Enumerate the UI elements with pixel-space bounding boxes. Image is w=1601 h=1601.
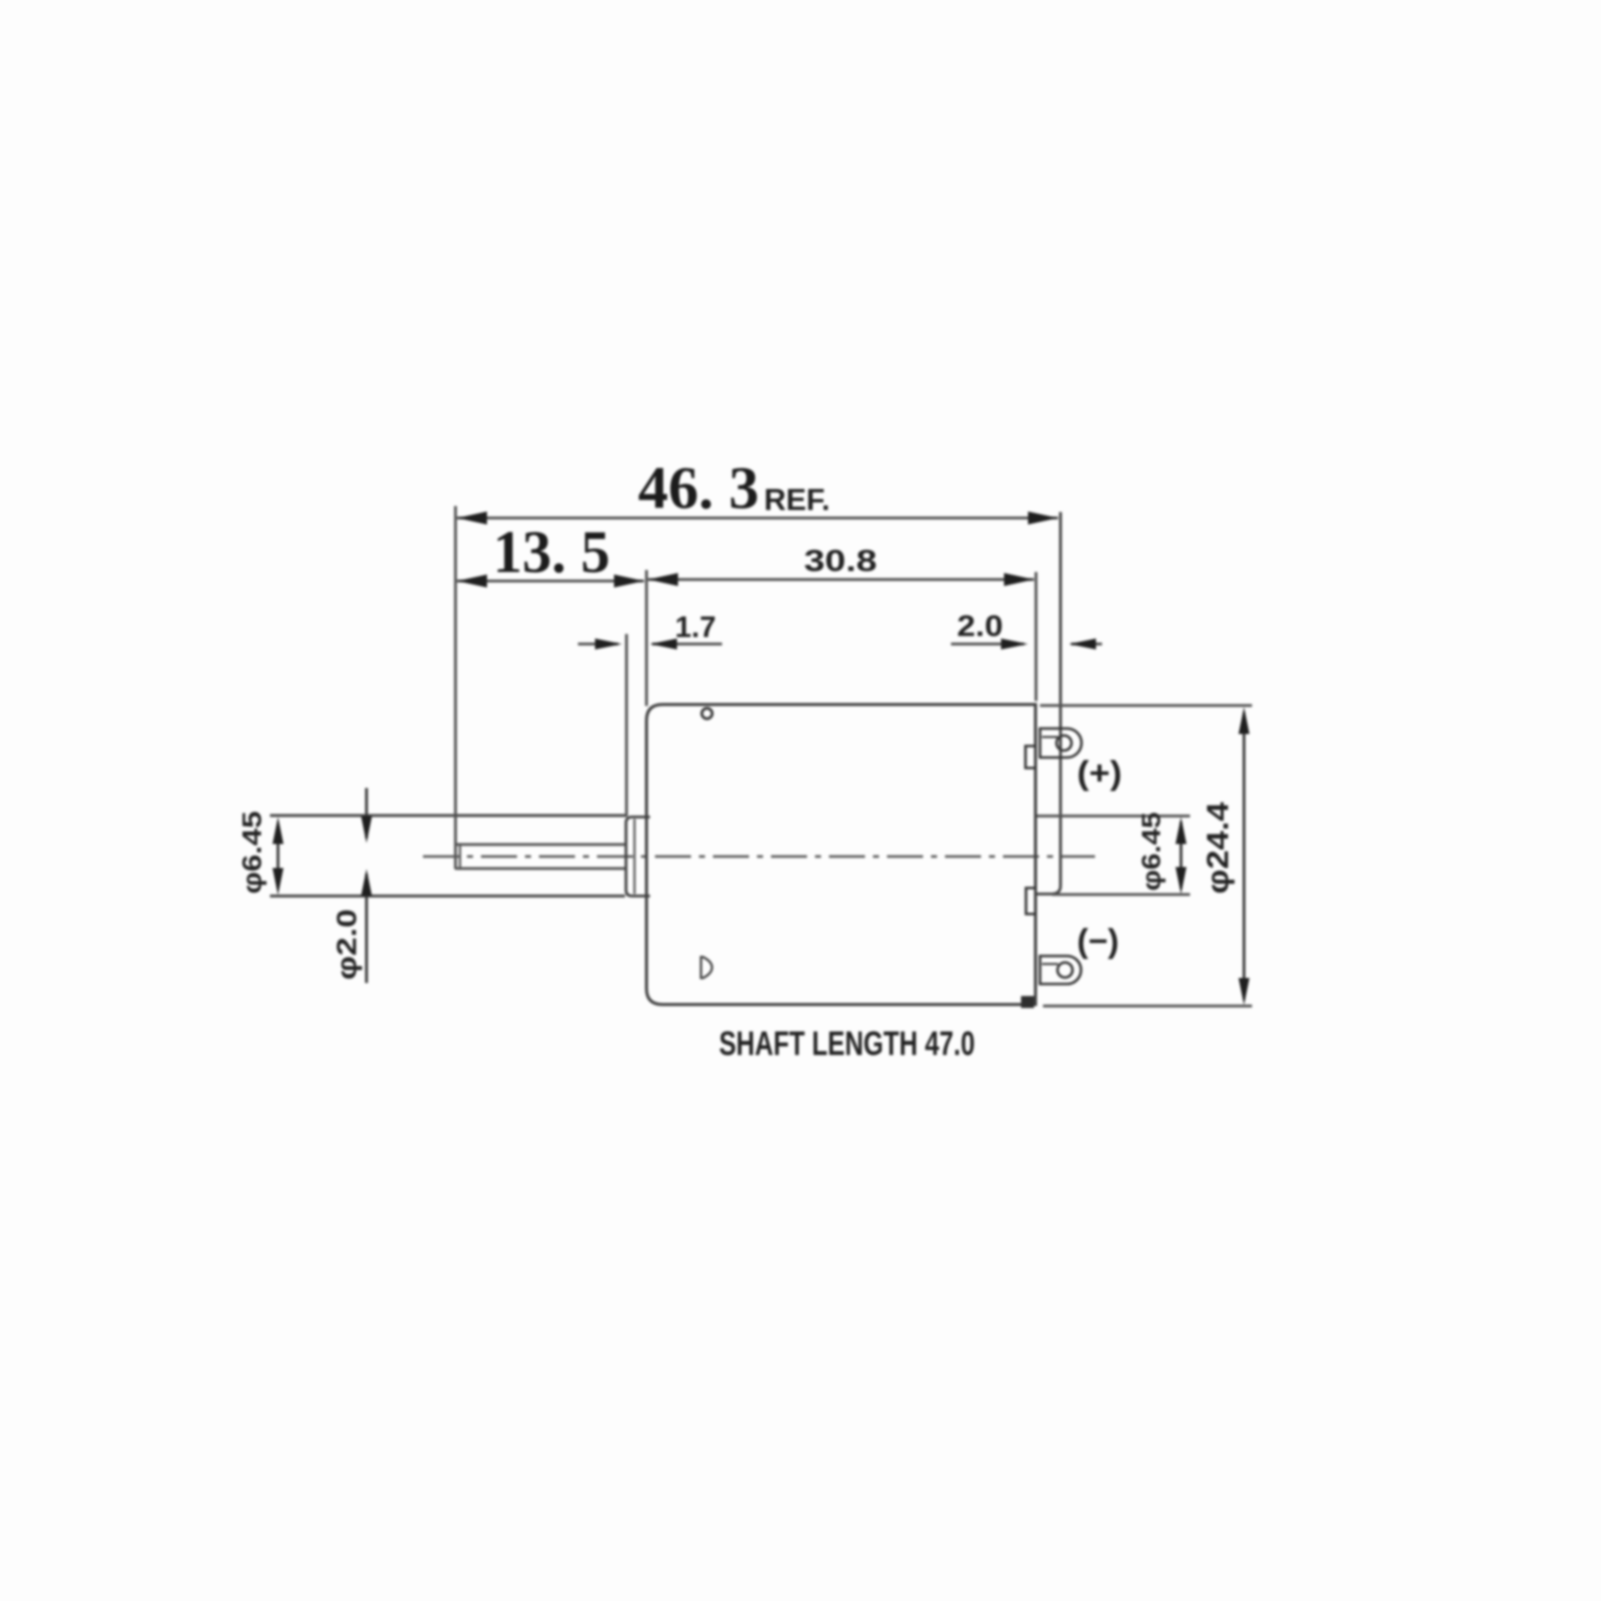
dimension phi6.45 right dim line with arrows bbox=[1176, 817, 1187, 894]
motor body outline bbox=[647, 705, 1036, 1005]
case crimp mark bottom-right corner bbox=[1021, 996, 1034, 1008]
extension line boss left face bbox=[625, 634, 628, 816]
terminal (-) hole bbox=[1058, 963, 1073, 978]
svg-text:2.0: 2.0 bbox=[957, 610, 1003, 643]
dimension 13.5 right arrowhead bbox=[614, 575, 644, 588]
dimension phi2.0 lower leader and arrowhead bbox=[361, 869, 372, 983]
dimension 13.5 left arrowhead bbox=[457, 575, 487, 588]
dimension 2.0 right leader and arrowhead bbox=[1069, 639, 1102, 650]
case crimp step (lower right) bbox=[1026, 888, 1036, 914]
dimension 2.0 left leader and arrowhead bbox=[951, 639, 1028, 650]
svg-text:1.7: 1.7 bbox=[675, 611, 716, 644]
dimension 46.3 right arrowhead bbox=[1028, 512, 1058, 525]
svg-text:30.8: 30.8 bbox=[804, 543, 877, 578]
svg-text:46. 3: 46. 3 bbox=[638, 455, 759, 521]
shaft inner top line (pinion core) bbox=[455, 843, 627, 846]
bearing boss (collar) outline bbox=[626, 817, 650, 896]
svg-text:φ6.45: φ6.45 bbox=[1136, 812, 1166, 891]
dimension 13.5 dim line bbox=[457, 580, 644, 583]
svg-text:SHAFT LENGTH 47.0: SHAFT LENGTH 47.0 bbox=[719, 1025, 975, 1063]
phi24.4 extension line bottom bbox=[1043, 1005, 1252, 1008]
phi6.45 right extension line bottom bbox=[1052, 893, 1190, 896]
shaft outer top line bbox=[270, 814, 627, 817]
bearing boss inner edge line bbox=[633, 819, 635, 894]
dimension phi2.0 upper leader and arrowhead bbox=[361, 788, 372, 843]
phi6.45 right extension line top bbox=[1037, 815, 1190, 818]
dimension 46.3 REF dim line bbox=[457, 517, 1058, 520]
terminal (+) crimp line bbox=[1042, 736, 1058, 738]
centerline (axis, dash-dot) bbox=[423, 855, 1095, 857]
svg-text:(+): (+) bbox=[1077, 754, 1122, 791]
vent hole mark top-left bbox=[702, 708, 712, 718]
dimension 30.8 left arrowhead bbox=[648, 573, 678, 586]
svg-text:φ24.4: φ24.4 bbox=[1200, 801, 1235, 894]
svg-text:(−): (−) bbox=[1077, 922, 1119, 959]
terminal (+) base bracket bbox=[1026, 746, 1037, 768]
dimension 30.8 right arrowhead bbox=[1004, 573, 1034, 586]
svg-text:φ6.45: φ6.45 bbox=[237, 811, 267, 894]
extension line body left face bbox=[645, 570, 648, 706]
dimension 46.3 left arrowhead bbox=[457, 512, 487, 525]
dimension 1.7 right leader and arrowhead bbox=[650, 639, 722, 650]
phi24.4 extension line top bbox=[1040, 704, 1252, 707]
svg-text:φ2.0: φ2.0 bbox=[331, 909, 362, 980]
dimension 1.7 left leader and arrowhead bbox=[578, 639, 622, 650]
svg-text:13. 5: 13. 5 bbox=[493, 519, 610, 585]
dimension 30.8 dim line bbox=[648, 578, 1034, 581]
svg-text:REF.: REF. bbox=[764, 482, 830, 517]
terminal (+) hole bbox=[1057, 736, 1072, 751]
terminal (+) tab outline bbox=[1040, 729, 1082, 758]
terminal (-) tab outline bbox=[1040, 956, 1081, 984]
dimension phi24.4 dim line with arrows bbox=[1239, 707, 1250, 1005]
extension line left end (shaft end plane) bbox=[454, 506, 457, 869]
vent hole D-mark bottom-left bbox=[701, 957, 712, 978]
shaft inner core end cap bbox=[459, 843, 461, 870]
terminal (-) crimp line bbox=[1042, 963, 1058, 965]
extension line right end (terminal plane) + endbell right edge bbox=[1035, 512, 1061, 894]
extension line body right face bbox=[1035, 572, 1038, 701]
shaft inner bottom line (pinion core) bbox=[455, 867, 627, 870]
shaft outer bottom line bbox=[270, 895, 625, 898]
dimension phi6.45 left dim line with arrows bbox=[273, 817, 284, 895]
